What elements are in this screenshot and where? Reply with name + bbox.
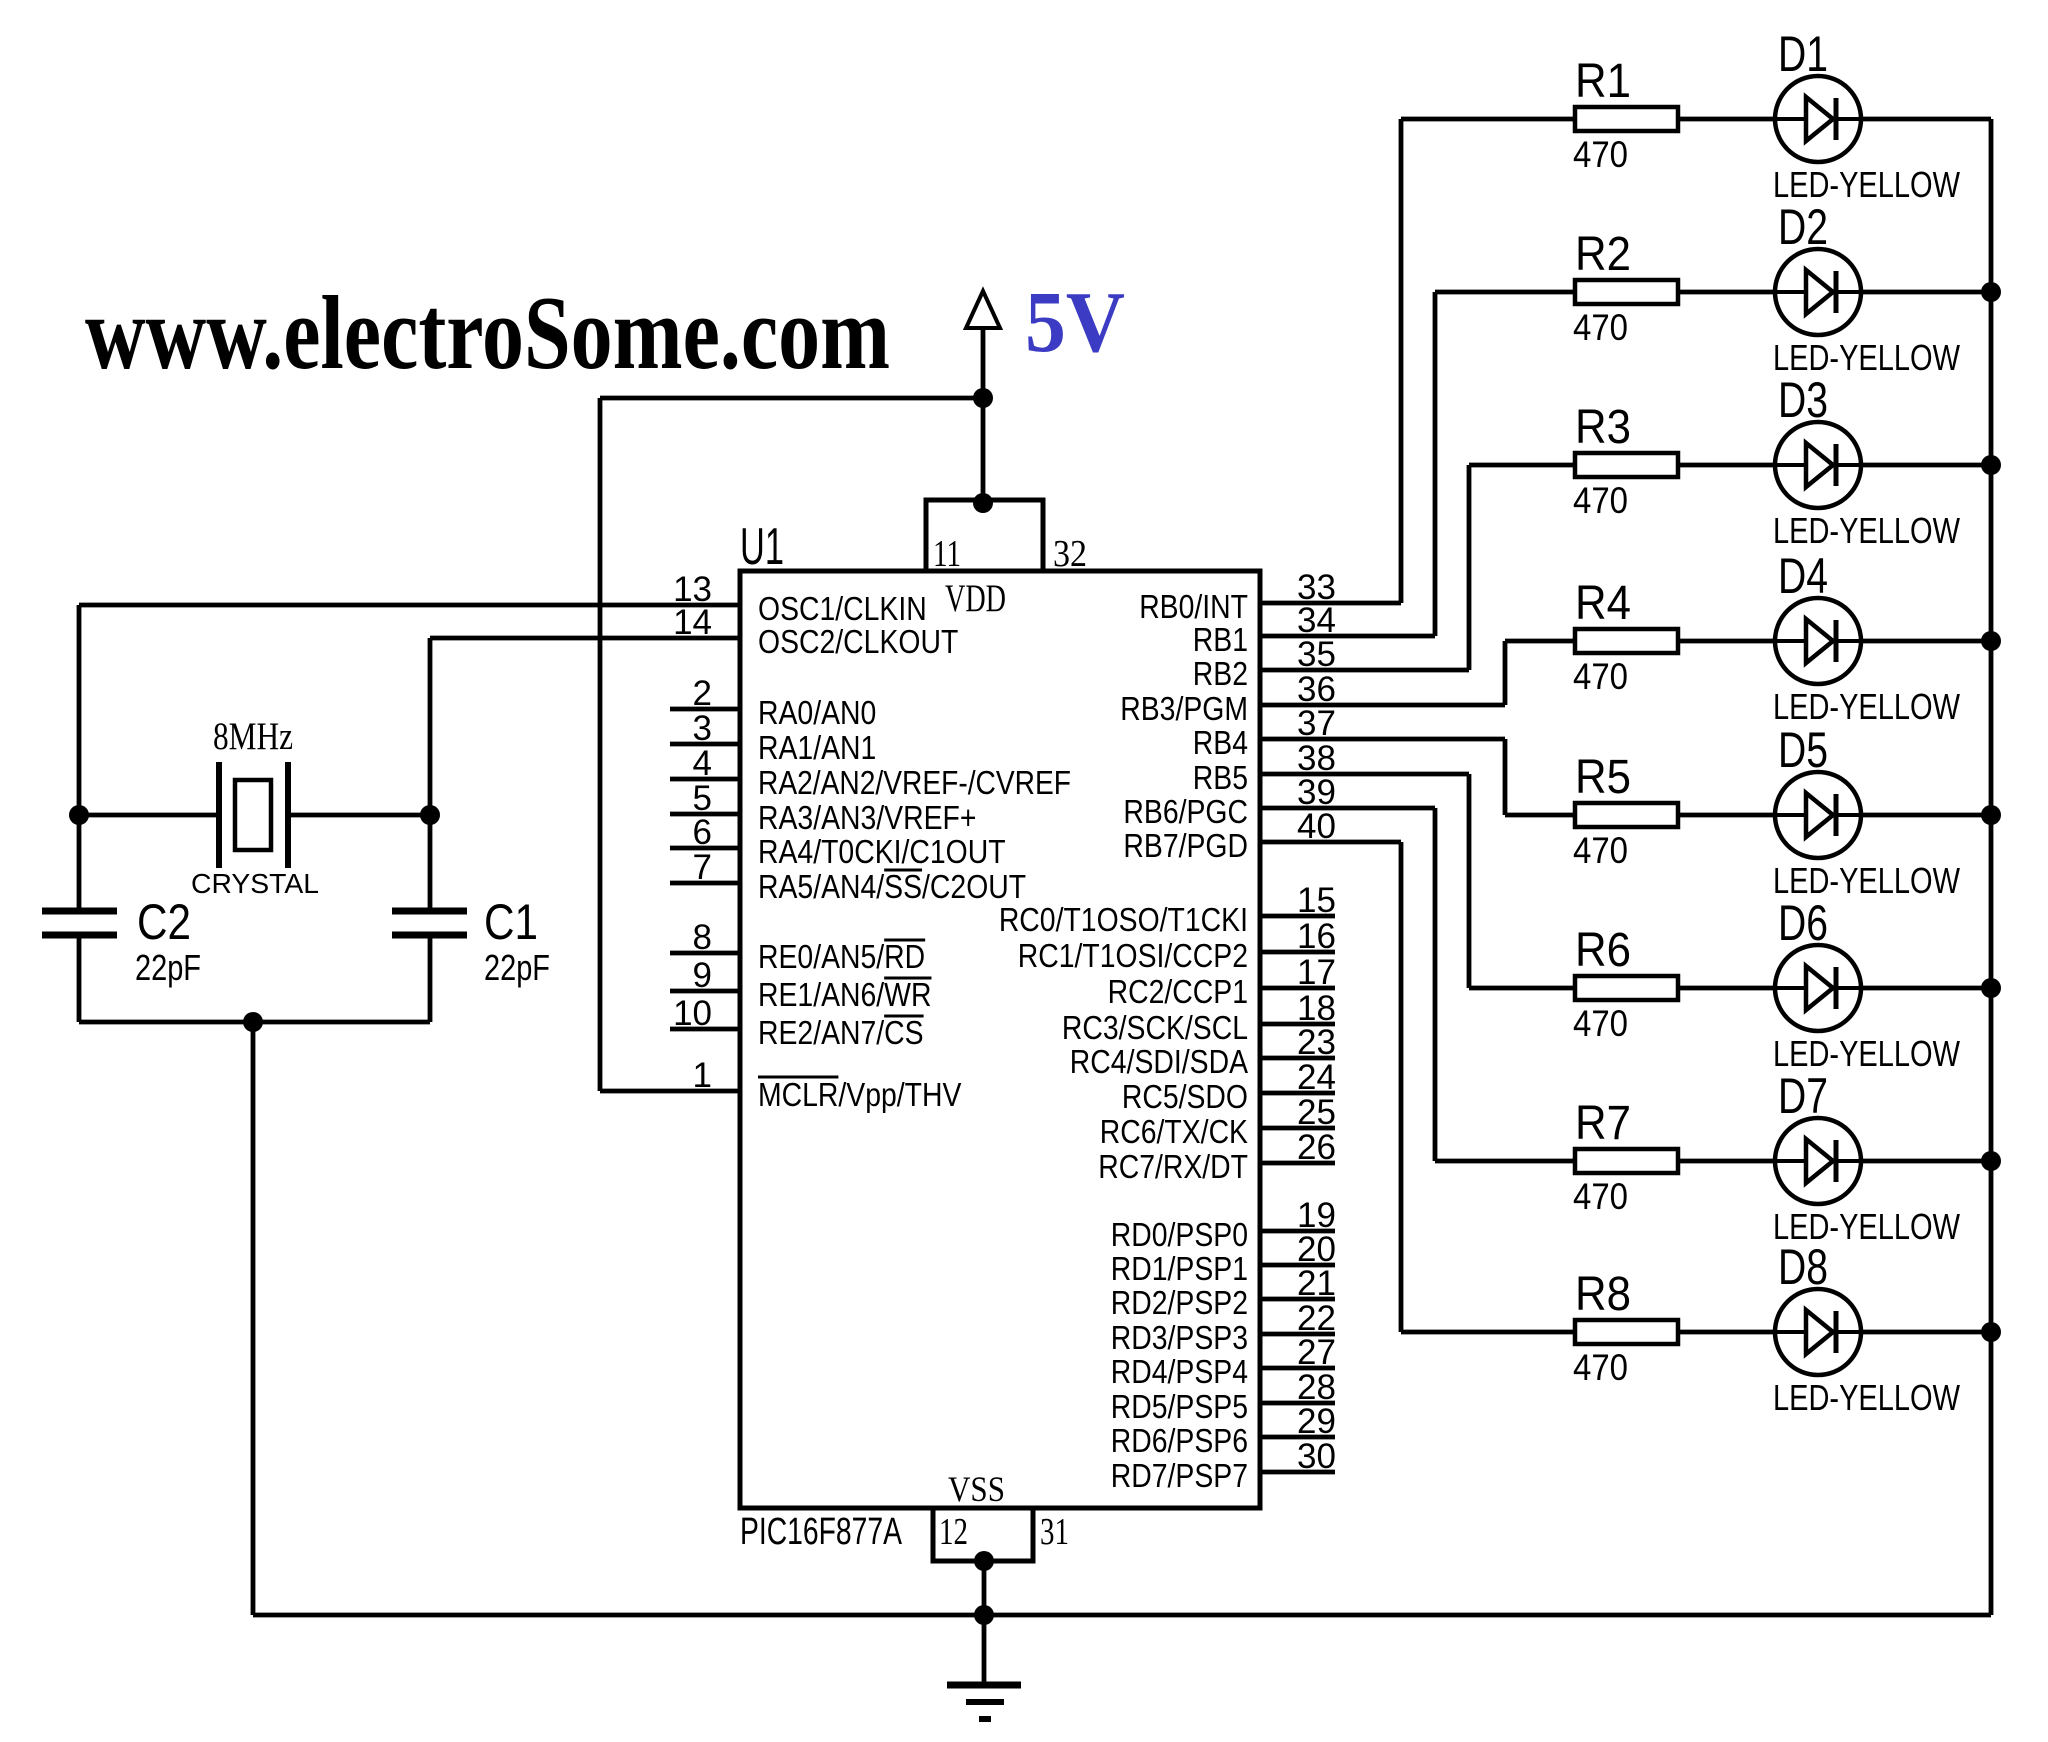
wire pin 36 to column (1260, 703, 1505, 708)
VDD power pin box (pins 11,32) (926, 500, 1043, 571)
wire LED cathode bus (1989, 119, 1994, 1615)
pin 20 stub (1260, 1263, 1335, 1268)
svg-text:RB4: RB4 (1193, 724, 1248, 761)
svg-text:470: 470 (1573, 656, 1628, 697)
ground symbol (947, 1685, 1021, 1719)
wire pin 40 to column (1260, 840, 1401, 845)
wire column x=1469 for RB2 (1467, 465, 1472, 670)
pin 3 stub (670, 742, 740, 747)
svg-text:15: 15 (1297, 881, 1336, 920)
svg-text:RA3/AN3/VREF+: RA3/AN3/VREF+ (758, 799, 976, 836)
wire VSS to ground (982, 1561, 987, 1684)
overline CS (pin 10) (884, 1015, 923, 1018)
wire row feed to R at y=1332 (1401, 1330, 1575, 1335)
svg-text:R4: R4 (1575, 577, 1631, 630)
svg-text:RD4/PSP4: RD4/PSP4 (1111, 1353, 1248, 1390)
resistor R1 470 (1575, 107, 1678, 131)
svg-text:10: 10 (673, 994, 712, 1033)
svg-text:8: 8 (693, 918, 712, 957)
wire row feed to R at y=1161 (1435, 1159, 1575, 1164)
svg-text:RB3/PGM: RB3/PGM (1120, 690, 1248, 727)
wire D4 to cathode bus (1861, 639, 1991, 644)
pin 26 stub (1260, 1161, 1335, 1166)
wire pin 38 to column (1260, 772, 1469, 777)
svg-text:470: 470 (1573, 1003, 1628, 1044)
svg-text:D5: D5 (1778, 722, 1828, 778)
wire D1 to cathode bus (1861, 117, 1991, 122)
wire D3 to cathode bus (1861, 463, 1991, 468)
wire ground bus (253, 1613, 1991, 1618)
wire D6 to cathode bus (1861, 986, 1991, 991)
svg-text:RB7/PGD: RB7/PGD (1123, 827, 1248, 864)
svg-text:30: 30 (1297, 1437, 1336, 1476)
svg-text:D4: D4 (1778, 548, 1828, 604)
svg-text:23: 23 (1297, 1023, 1336, 1062)
pin 18 stub (1260, 1022, 1335, 1027)
wire R4 to D4 (1678, 639, 1775, 644)
wire column x=1435 for RB1 (1433, 292, 1438, 636)
wire row feed to R at y=641 (1505, 639, 1575, 644)
wire crystal ground drop (251, 1022, 256, 1615)
svg-text:RA4/T0CKI/C1OUT: RA4/T0CKI/C1OUT (758, 833, 1006, 870)
junction 5V branch (973, 388, 993, 408)
svg-text:R5: R5 (1575, 751, 1631, 804)
wire OSC2 vertical to crystal/C1 (428, 638, 433, 911)
overline SS (pin 7) (884, 869, 922, 872)
wire MCLR pin 1 (600, 1089, 740, 1094)
junction crystal right node (420, 805, 440, 825)
svg-text:D1: D1 (1778, 26, 1828, 82)
svg-text:RC7/RX/DT: RC7/RX/DT (1098, 1148, 1248, 1185)
svg-text:22pF: 22pF (135, 947, 201, 988)
svg-text:37: 37 (1297, 704, 1336, 743)
svg-text:D6: D6 (1778, 895, 1828, 951)
wire capacitor ground link (79, 1020, 430, 1025)
svg-text:8MHz: 8MHz (213, 715, 293, 758)
resistor R8 470 (1575, 1320, 1678, 1344)
wire OSC1 vertical to crystal/C2 (77, 605, 82, 911)
svg-text:31: 31 (1040, 1511, 1069, 1553)
junction cathode bus y=1332 (1981, 1322, 2001, 1342)
svg-text:MCLR/Vpp/THV: MCLR/Vpp/THV (758, 1076, 961, 1113)
pin 29 stub (1260, 1435, 1335, 1440)
LED D7 (1775, 1118, 1861, 1204)
svg-text:LED-YELLOW: LED-YELLOW (1773, 510, 1960, 551)
junction ground bus at VSS (974, 1605, 994, 1625)
wire row feed to R at y=119 (1401, 117, 1575, 122)
wire pin 37 to column (1260, 737, 1505, 742)
pin 7 stub (670, 881, 740, 886)
pin 16 stub (1260, 950, 1335, 955)
wire pin 33 to column (1260, 601, 1401, 606)
junction cathode bus y=292 (1981, 282, 2001, 302)
svg-text:6: 6 (693, 813, 712, 852)
junction capacitor ground tap (243, 1012, 263, 1032)
wire column x=1435 for RB6/PGC (1433, 808, 1438, 1161)
svg-text:LED-YELLOW: LED-YELLOW (1773, 1377, 1960, 1418)
svg-text:RC1/T1OSI/CCP2: RC1/T1OSI/CCP2 (1018, 937, 1248, 974)
wire OSC2 pin 14 (430, 636, 740, 641)
LED D2 (1775, 249, 1861, 335)
svg-text:R2: R2 (1575, 228, 1631, 281)
capacitor C1 22pF (392, 911, 467, 935)
svg-text:RE2/AN7/CS: RE2/AN7/CS (758, 1014, 924, 1051)
svg-text:40: 40 (1297, 807, 1336, 846)
svg-text:C1: C1 (484, 894, 538, 950)
wire column x=1505 for RB4 (1503, 739, 1508, 815)
svg-text:D7: D7 (1778, 1068, 1828, 1124)
svg-text:RC4/SDI/SDA: RC4/SDI/SDA (1070, 1043, 1248, 1080)
svg-text:2: 2 (693, 674, 712, 713)
svg-text:RD3/PSP3: RD3/PSP3 (1111, 1319, 1248, 1356)
wire R2 to D2 (1678, 290, 1775, 295)
svg-text:25: 25 (1297, 1093, 1336, 1132)
LED D3 (1775, 422, 1861, 508)
wire pin 34 to column (1260, 634, 1435, 639)
pin 6 stub (670, 846, 740, 851)
svg-text:R8: R8 (1575, 1268, 1631, 1321)
svg-text:PIC16F877A: PIC16F877A (740, 1511, 902, 1553)
svg-text:RA5/AN4/SS/C2OUT: RA5/AN4/SS/C2OUT (758, 868, 1026, 905)
LED D5 (1775, 772, 1861, 858)
svg-text:VSS: VSS (948, 1469, 1005, 1509)
svg-text:RD5/PSP5: RD5/PSP5 (1111, 1388, 1248, 1425)
svg-text:RE0/AN5/RD: RE0/AN5/RD (758, 938, 925, 975)
pin 9 stub (670, 989, 740, 994)
wire pin 39 to column (1260, 806, 1435, 811)
crystal X1 8MHz (219, 762, 288, 868)
svg-text:C2: C2 (137, 894, 191, 950)
VSS power pin box (pins 12,31) (933, 1508, 1033, 1561)
svg-text:RB1: RB1 (1193, 621, 1248, 658)
pin 22 stub (1260, 1332, 1335, 1337)
svg-text:R3: R3 (1575, 401, 1631, 454)
wire 5V branch to MCLR pull-up (600, 396, 983, 401)
wire R6 to D6 (1678, 986, 1775, 991)
resistor R4 470 (1575, 629, 1678, 653)
pin 28 stub (1260, 1401, 1335, 1406)
resistor R2 470 (1575, 280, 1678, 304)
wire column x=1505 for RB3/PGM (1503, 641, 1508, 705)
pin 17 stub (1260, 986, 1335, 991)
wire row feed to R at y=815 (1505, 813, 1575, 818)
svg-text:9: 9 (693, 956, 712, 995)
wire row feed to R at y=465 (1469, 463, 1575, 468)
svg-text:RC5/SDO: RC5/SDO (1122, 1078, 1248, 1115)
resistor R7 470 (1575, 1149, 1678, 1173)
wire D5 to cathode bus (1861, 813, 1991, 818)
wire R3 to D3 (1678, 463, 1775, 468)
svg-text:RA1/AN1: RA1/AN1 (758, 729, 876, 766)
svg-text:U1: U1 (740, 518, 784, 576)
junction VDD box top (973, 493, 993, 513)
svg-text:470: 470 (1573, 134, 1628, 175)
wire C2 bottom lead (77, 935, 82, 1022)
LED D8 (1775, 1289, 1861, 1375)
pin 24 stub (1260, 1091, 1335, 1096)
wire column x=1401 for RB0/INT (1399, 119, 1404, 603)
wire row feed to R at y=988 (1469, 986, 1575, 991)
svg-text:1: 1 (693, 1056, 712, 1095)
svg-text:26: 26 (1297, 1128, 1336, 1167)
svg-text:D8: D8 (1778, 1239, 1828, 1295)
svg-text:R1: R1 (1575, 55, 1631, 108)
svg-text:CRYSTAL: CRYSTAL (191, 868, 319, 899)
capacitor C2 22pF (42, 911, 117, 935)
svg-text:RD0/PSP0: RD0/PSP0 (1111, 1216, 1248, 1253)
wire row feed to R at y=292 (1435, 290, 1575, 295)
junction cathode bus y=465 (1981, 455, 2001, 475)
overline RD (pin 8) (884, 939, 925, 942)
overline MCLR (pin 1) (758, 1076, 838, 1079)
wire R5 to D5 (1678, 813, 1775, 818)
svg-text:RB5: RB5 (1193, 759, 1248, 796)
svg-text:22pF: 22pF (484, 947, 550, 988)
wire pin 35 to column (1260, 668, 1469, 673)
junction VSS box bottom (974, 1551, 994, 1571)
pin 30 stub (1260, 1470, 1335, 1475)
svg-text:29: 29 (1297, 1402, 1336, 1441)
wire D8 to cathode bus (1861, 1330, 1991, 1335)
svg-text:470: 470 (1573, 1347, 1628, 1388)
svg-text:RA0/AN0: RA0/AN0 (758, 694, 876, 731)
svg-text:5V: 5V (1025, 273, 1125, 370)
pin 15 stub (1260, 914, 1335, 919)
svg-text:27: 27 (1297, 1333, 1336, 1372)
wire D2 to cathode bus (1861, 290, 1991, 295)
wire D7 to cathode bus (1861, 1159, 1991, 1164)
junction crystal left node (69, 805, 89, 825)
wire column x=1401 for RB7/PGD (1399, 842, 1404, 1332)
wire 5V stem (981, 328, 986, 503)
pin 21 stub (1260, 1297, 1335, 1302)
svg-text:RD7/PSP7: RD7/PSP7 (1111, 1457, 1248, 1494)
svg-text:35: 35 (1297, 635, 1336, 674)
svg-text:RE1/AN6/WR: RE1/AN6/WR (758, 976, 931, 1013)
wire OSC1 pin 13 (79, 603, 740, 608)
pin 5 stub (670, 812, 740, 817)
svg-text:16: 16 (1297, 917, 1336, 956)
svg-text:R6: R6 (1575, 924, 1631, 977)
svg-text:21: 21 (1297, 1264, 1336, 1303)
pin 8 stub (670, 951, 740, 956)
wire R7 to D7 (1678, 1159, 1775, 1164)
svg-text:RC6/TX/CK: RC6/TX/CK (1100, 1113, 1248, 1150)
svg-text:24: 24 (1297, 1058, 1336, 1097)
junction cathode bus y=988 (1981, 978, 2001, 998)
pin 4 stub (670, 777, 740, 782)
LED D1 (1775, 76, 1861, 162)
wire MCLR pull-up vertical (598, 398, 603, 1091)
svg-text:RD1/PSP1: RD1/PSP1 (1111, 1250, 1248, 1287)
wire R1 to D1 (1678, 117, 1775, 122)
svg-text:470: 470 (1573, 307, 1628, 348)
pin 27 stub (1260, 1366, 1335, 1371)
svg-text:RD6/PSP6: RD6/PSP6 (1111, 1422, 1248, 1459)
pin 19 stub (1260, 1229, 1335, 1234)
svg-text:RB2: RB2 (1193, 655, 1248, 692)
svg-text:RA2/AN2/VREF-/CVREF: RA2/AN2/VREF-/CVREF (758, 764, 1071, 801)
power symbol 5V arrow (966, 291, 1000, 328)
pin 2 stub (670, 707, 740, 712)
junction cathode bus y=641 (1981, 631, 2001, 651)
svg-text:OSC2/CLKOUT: OSC2/CLKOUT (758, 623, 958, 660)
overline WR (pin 9) (884, 977, 931, 980)
svg-text:RC3/SCK/SCL: RC3/SCK/SCL (1062, 1009, 1248, 1046)
svg-text:RB6/PGC: RB6/PGC (1123, 793, 1248, 830)
svg-text:3: 3 (693, 709, 712, 748)
wire C1 bottom lead (428, 935, 433, 1022)
microcontroller U1 PIC16F877A body (740, 571, 1260, 1508)
svg-text:7: 7 (693, 848, 712, 887)
svg-text:VDD: VDD (945, 577, 1006, 620)
pin 10 stub (670, 1027, 740, 1032)
wire R8 to D8 (1678, 1330, 1775, 1335)
svg-text:470: 470 (1573, 830, 1628, 871)
resistor R5 470 (1575, 803, 1678, 827)
svg-text:D3: D3 (1778, 372, 1828, 428)
svg-text:470: 470 (1573, 1176, 1628, 1217)
svg-text:www.electroSome.com: www.electroSome.com (85, 274, 890, 391)
svg-text:RC0/T1OSO/T1CKI: RC0/T1OSO/T1CKI (999, 901, 1248, 938)
wire crystal right lead (288, 813, 430, 818)
svg-text:R7: R7 (1575, 1097, 1631, 1150)
svg-text:4: 4 (693, 744, 712, 783)
svg-text:470: 470 (1573, 480, 1628, 521)
pin 23 stub (1260, 1056, 1335, 1061)
LED D4 (1775, 598, 1861, 684)
svg-text:RB0/INT: RB0/INT (1139, 588, 1248, 625)
svg-text:14: 14 (673, 603, 712, 642)
resistor R6 470 (1575, 976, 1678, 1000)
pin 25 stub (1260, 1126, 1335, 1131)
wire crystal left lead (79, 813, 219, 818)
svg-text:LED-YELLOW: LED-YELLOW (1773, 686, 1960, 727)
junction cathode bus y=1161 (1981, 1151, 2001, 1171)
junction cathode bus y=815 (1981, 805, 2001, 825)
LED D6 (1775, 945, 1861, 1031)
svg-text:D2: D2 (1778, 199, 1828, 255)
svg-text:OSC1/CLKIN: OSC1/CLKIN (758, 590, 927, 627)
svg-text:RC2/CCP1: RC2/CCP1 (1108, 973, 1248, 1010)
svg-text:12: 12 (939, 1511, 968, 1553)
svg-text:RD2/PSP2: RD2/PSP2 (1111, 1284, 1248, 1321)
svg-text:17: 17 (1297, 953, 1336, 992)
resistor R3 470 (1575, 453, 1678, 477)
wire column x=1469 for RB5 (1467, 774, 1472, 988)
